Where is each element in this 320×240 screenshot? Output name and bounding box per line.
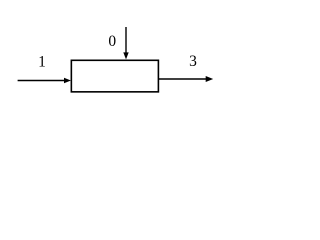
block (process box) bbox=[71, 60, 158, 92]
svg-text:1: 1 bbox=[38, 54, 46, 71]
arrowhead: output 3 bbox=[206, 76, 214, 82]
wire: input arrow 0 (top, vertical) bbox=[125, 27, 127, 54]
arrowhead: input 0 bbox=[123, 52, 128, 59]
wire: input arrow 1 (left, horizontal) bbox=[18, 80, 65, 82]
svg-text:0: 0 bbox=[108, 33, 116, 50]
arrowhead: input 1 bbox=[64, 78, 71, 84]
svg-text:3: 3 bbox=[189, 53, 197, 70]
wire: output arrow 3 (right, horizontal) bbox=[158, 78, 206, 80]
